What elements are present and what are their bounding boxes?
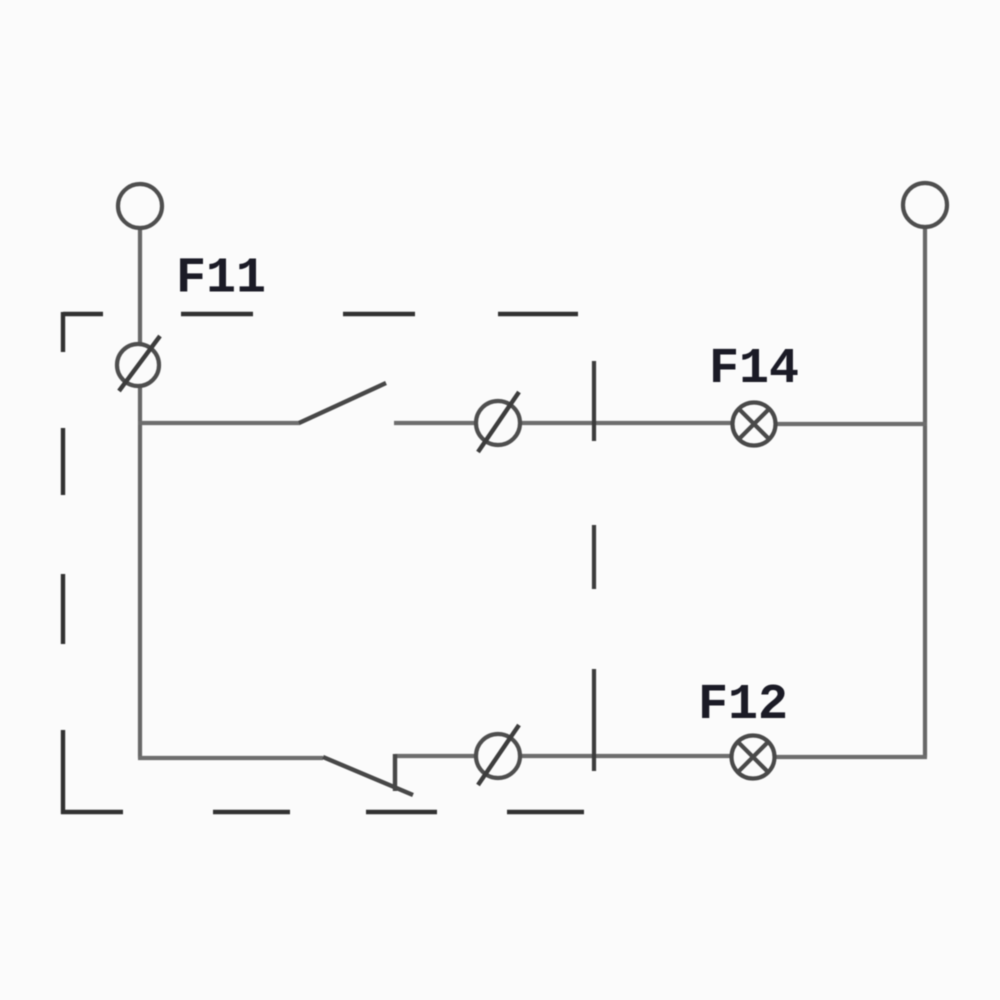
switch F11 NO contact blade (299, 383, 386, 423)
switch NC contact stop pin (393, 754, 397, 791)
wire right vertical bus (923, 225, 927, 757)
wire left vertical bus (138, 226, 142, 758)
lamp F14 (733, 403, 776, 446)
svg-text:F12: F12 (698, 677, 788, 734)
enclosure dashed border left (61, 312, 65, 814)
wire row2 right segment (772, 755, 927, 759)
mechanical linkage dashed line (592, 361, 596, 771)
lamp F12 (732, 736, 775, 779)
svg-text:F14: F14 (709, 341, 799, 398)
svg-text:F11: F11 (176, 251, 266, 308)
actuator slash row1 (478, 392, 519, 452)
wire row1 middle segment (394, 421, 735, 425)
switch NC contact blade (row2) (323, 757, 413, 795)
actuator slash on left bus (119, 336, 160, 391)
terminal top-right (903, 183, 947, 227)
wire row2 middle segment (395, 754, 734, 758)
wire row1 right segment (773, 422, 927, 426)
enclosure dashed border bottom (61, 810, 584, 814)
terminal top-left (118, 184, 162, 228)
wire row1 left segment (138, 421, 300, 425)
wire row2 left segment (138, 756, 323, 760)
enclosure dashed border top (63, 312, 578, 316)
actuator slash row2 (478, 725, 519, 785)
actuator circle row1 (476, 401, 520, 445)
actuator circle row2 (476, 734, 520, 778)
actuator circle on left bus (117, 344, 159, 386)
